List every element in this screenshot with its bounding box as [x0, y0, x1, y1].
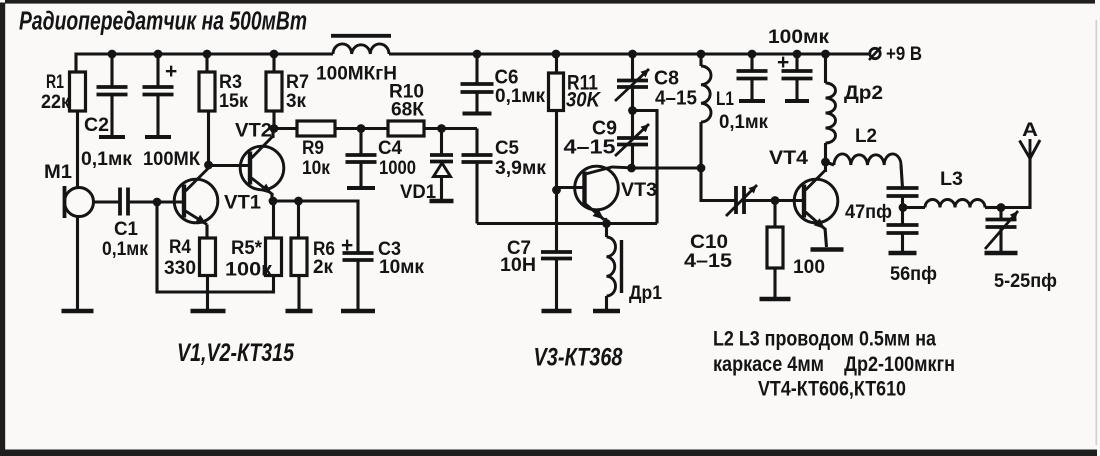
- varicap diode VD1: [430, 129, 453, 162]
- resistor R11: [549, 73, 564, 111]
- svg-text:C1: C1: [114, 219, 138, 240]
- svg-text:4–15: 4–15: [655, 88, 697, 110]
- node R11 rail: [552, 50, 561, 59]
- svg-text:VT3: VT3: [621, 180, 657, 201]
- svg-text:+: +: [341, 234, 353, 257]
- svg-text:30K: 30K: [566, 89, 602, 112]
- node L1 bottom: [697, 164, 706, 173]
- node VT3 emitter bottom: [602, 219, 611, 228]
- transistor VT2: [240, 146, 284, 190]
- wire R6 top lead: [297, 201, 300, 238]
- resistor R3: [199, 72, 215, 111]
- node VD1 top: [437, 124, 446, 133]
- resistor R7: [266, 72, 282, 111]
- capacitor 5-25pf trimmer: [986, 208, 1017, 254]
- svg-text:M1: M1: [44, 162, 72, 183]
- capacitor 0.1 bypass: [737, 54, 768, 101]
- inductor L1: [699, 54, 702, 66]
- antenna A: [1020, 139, 1041, 159]
- node VT1 base: [153, 198, 162, 207]
- node C2 rail: [108, 50, 117, 59]
- wire R100 top lead: [773, 201, 776, 228]
- svg-text:C4: C4: [378, 138, 402, 159]
- wire VT1 emitter to R4: [205, 225, 208, 239]
- svg-text:68К: 68К: [391, 100, 424, 121]
- svg-text:100: 100: [793, 257, 825, 278]
- capacitor C3 electrolytic: [343, 253, 374, 311]
- wire R5 top lead: [272, 201, 275, 238]
- svg-text:R9: R9: [302, 138, 324, 159]
- svg-text:R7: R7: [286, 72, 309, 93]
- node 100MK rail: [154, 50, 163, 59]
- node R7 rail: [270, 50, 279, 59]
- svg-text:10к: 10к: [302, 158, 330, 179]
- svg-text:1000: 1000: [379, 158, 416, 179]
- wire R11 to VT3 base: [555, 111, 558, 191]
- node 100mk rail: [793, 50, 802, 59]
- inductor L2: [826, 162, 835, 165]
- svg-text:R1: R1: [46, 72, 64, 93]
- node Dr2 rail: [821, 50, 830, 59]
- capacitor C8 trimmer: [617, 54, 648, 111]
- node VT2 collector: [270, 124, 279, 133]
- frame border: [5, 0, 1095, 4]
- svg-text:0,1мк: 0,1мк: [81, 149, 132, 170]
- ground R4: [191, 309, 226, 314]
- wire top supply rail right section: [389, 52, 870, 55]
- svg-text:A: A: [1022, 120, 1038, 141]
- wire R7 to collector node: [272, 111, 275, 129]
- svg-text:R4: R4: [169, 237, 191, 258]
- svg-text:22к: 22к: [41, 92, 70, 113]
- node R6 top: [294, 197, 303, 206]
- wire C1 to VT1 base: [128, 200, 184, 203]
- wire M1 to ground: [76, 217, 79, 312]
- capacitor C7: [541, 190, 572, 311]
- svg-text:VD1: VD1: [400, 182, 436, 203]
- microphone M1: [65, 188, 94, 217]
- node VT1 collector / VT2 base: [204, 161, 213, 170]
- svg-text:100к: 100к: [225, 260, 273, 281]
- svg-text:каркасе 4мм Др2-100мкгн: каркасе 4мм Др2-100мкгн: [713, 352, 955, 376]
- capacitor 100MK electrolytic: [143, 54, 174, 137]
- node antenna junction: [997, 203, 1006, 212]
- svg-text:VT2: VT2: [235, 121, 272, 142]
- svg-text:100МК: 100МК: [143, 149, 200, 170]
- wire R7 top stub: [272, 54, 275, 72]
- wire C10 to VT4 base: [744, 199, 804, 202]
- node L1 rail: [697, 50, 706, 59]
- node capacitive divider: [899, 203, 908, 212]
- capacitor C5: [462, 129, 493, 224]
- transistor VT4: [794, 179, 838, 223]
- wire oscillator bottom rail: [477, 222, 657, 225]
- svg-text:R5*: R5*: [231, 238, 263, 259]
- capacitor C1: [120, 188, 128, 216]
- wire L1 to C10: [701, 168, 736, 201]
- svg-text:C5: C5: [495, 138, 519, 159]
- wire M1 to C1: [94, 200, 121, 203]
- ground C7: [542, 309, 572, 314]
- node C8 C9 junction: [628, 106, 637, 115]
- svg-text:C8: C8: [654, 68, 679, 90]
- ground C3: [341, 309, 375, 314]
- inductor L3: [903, 206, 925, 209]
- capacitor C6: [461, 54, 494, 114]
- inductor Dr2: [824, 54, 827, 83]
- terminal +9V: [870, 48, 880, 58]
- svg-text:V3-КТ368: V3-КТ368: [534, 344, 623, 372]
- node VT3 base: [552, 186, 561, 195]
- inductor 100MKgH choke: [333, 44, 389, 54]
- wire R1 to microphone: [76, 111, 79, 188]
- wire R6 to ground: [297, 276, 300, 312]
- svg-text:47пф: 47пф: [845, 202, 892, 223]
- wire VT3 base lead: [557, 186, 585, 189]
- svg-text:Др2: Др2: [844, 83, 883, 104]
- wire VT2 base: [209, 164, 251, 167]
- svg-text:100МКгН: 100МКгН: [316, 64, 397, 85]
- svg-text:+: +: [777, 51, 789, 74]
- capacitor C9 trimmer: [617, 111, 648, 169]
- wire R11 top stub: [555, 54, 558, 73]
- svg-text:V1,V2-КТ315: V1,V2-КТ315: [177, 339, 295, 367]
- inductor Dr1: [605, 224, 608, 238]
- wire VT3 emitter down: [606, 218, 607, 224]
- svg-text:4–15: 4–15: [684, 251, 732, 272]
- svg-text:R3: R3: [219, 72, 242, 93]
- node VT4 collector: [821, 158, 830, 167]
- resistor R4: [200, 238, 216, 276]
- wire to antenna: [1001, 159, 1030, 208]
- svg-text:4–15: 4–15: [564, 137, 616, 159]
- wire VT4 emitter to ground: [825, 228, 827, 247]
- wire VT2 collector to node: [271, 129, 274, 139]
- wire R3 to VT1 collector node: [207, 111, 210, 165]
- svg-text:C10: C10: [690, 232, 728, 253]
- resistor R1: [70, 72, 86, 111]
- svg-text:VT1: VT1: [224, 193, 261, 214]
- svg-text:L3: L3: [940, 169, 963, 190]
- wire feedback loop: [633, 111, 658, 224]
- svg-text:C2: C2: [84, 115, 109, 136]
- capacitor C10 trimmer: [736, 186, 744, 214]
- svg-text:100мк: 100мк: [768, 27, 830, 48]
- transistor VT1: [174, 179, 218, 223]
- svg-text:Радиопередатчик на 500мВт: Радиопередатчик на 500мВт: [19, 8, 307, 36]
- wire emitter rail to C3: [273, 201, 358, 253]
- svg-text:2к: 2к: [313, 257, 333, 278]
- svg-text:15к: 15к: [219, 91, 248, 112]
- wire collector node to L1: [632, 166, 702, 169]
- svg-text:10мк: 10мк: [379, 257, 424, 278]
- svg-text:L2: L2: [855, 126, 877, 147]
- node bypass rail: [748, 50, 757, 59]
- svg-text:3к: 3к: [286, 91, 306, 112]
- node R3 rail: [203, 50, 212, 59]
- wire VT2 emitter down: [270, 193, 273, 201]
- node VT2 emitter / R5: [269, 197, 278, 206]
- ground Dr1: [593, 309, 620, 314]
- capacitor C2: [97, 54, 128, 137]
- svg-text:Др1: Др1: [629, 283, 662, 304]
- resistor R5*: [266, 238, 282, 276]
- svg-text:3,9мк: 3,9мк: [495, 158, 546, 179]
- wire R5 bottom to feedback rail: [157, 202, 274, 292]
- wire VT4 collector lead: [824, 162, 827, 172]
- wire R3 top stub: [205, 54, 208, 72]
- ground R6: [286, 309, 313, 314]
- transistor VT3: [575, 166, 619, 210]
- node VT4 base / R100: [771, 196, 780, 205]
- svg-text:+9 В: +9 В: [886, 44, 922, 65]
- svg-text:+: +: [165, 60, 177, 83]
- resistor R10: [388, 121, 424, 136]
- ground M1: [62, 309, 94, 314]
- node C8 rail: [628, 50, 637, 59]
- resistor R9: [297, 121, 335, 136]
- wire top supply rail left section: [76, 54, 333, 72]
- svg-text:0,1мк: 0,1мк: [719, 112, 768, 133]
- svg-text:L1: L1: [716, 89, 734, 110]
- svg-text:VT4-КТ606,КТ610: VT4-КТ606,КТ610: [758, 377, 906, 401]
- svg-text:0,1мк: 0,1мк: [102, 239, 148, 260]
- svg-text:L2 L3 проводом 0.5мм на: L2 L3 проводом 0.5мм на: [713, 327, 937, 351]
- capacitor C4: [346, 129, 377, 189]
- svg-text:5-25пф: 5-25пф: [994, 271, 1057, 292]
- capacitor 100mk electrolytic: [782, 54, 813, 101]
- svg-text:10Н: 10Н: [500, 255, 536, 276]
- capacitor 56pf: [887, 208, 919, 254]
- node VT3 collector / C9: [627, 164, 636, 173]
- svg-text:0,1мк: 0,1мк: [495, 86, 545, 107]
- ground 56pf: [889, 251, 917, 256]
- ground R100: [760, 297, 791, 302]
- wire R9 R10 bus: [274, 127, 477, 130]
- node C6 rail: [473, 50, 482, 59]
- resistor R6: [291, 238, 307, 276]
- svg-text:56пф: 56пф: [890, 264, 937, 285]
- resistor 100: [767, 227, 783, 268]
- node C4 top: [357, 124, 366, 133]
- capacitor 47pf: [887, 188, 919, 208]
- svg-text:330: 330: [164, 258, 196, 279]
- svg-text:VT4: VT4: [769, 148, 808, 169]
- wire R4 to ground: [206, 276, 209, 312]
- wire R100 to ground: [773, 268, 776, 299]
- ground VT4: [811, 247, 844, 252]
